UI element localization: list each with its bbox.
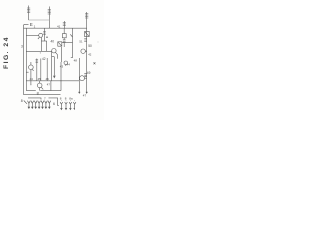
svg-text:8: 8 bbox=[37, 92, 39, 96]
svg-text:3: 3 bbox=[21, 45, 23, 49]
svg-text:51: 51 bbox=[79, 40, 83, 44]
svg-text:1: 1 bbox=[34, 24, 36, 28]
svg-text:48: 48 bbox=[74, 59, 78, 63]
svg-text:44: 44 bbox=[67, 63, 71, 67]
svg-text:40: 40 bbox=[51, 40, 55, 44]
svg-text:8: 8 bbox=[60, 96, 62, 100]
svg-text:6: 6 bbox=[53, 102, 55, 106]
svg-text:7: 7 bbox=[44, 97, 46, 101]
svg-text:46: 46 bbox=[46, 77, 50, 81]
svg-text:44: 44 bbox=[30, 77, 34, 81]
svg-text:50: 50 bbox=[88, 44, 92, 48]
svg-text:42: 42 bbox=[42, 57, 46, 61]
svg-text:E: E bbox=[30, 22, 33, 27]
svg-text:49: 49 bbox=[87, 71, 91, 75]
svg-text:42: 42 bbox=[88, 53, 92, 57]
svg-text:FIG. 24: FIG. 24 bbox=[3, 36, 10, 69]
svg-text:47: 47 bbox=[47, 83, 51, 87]
svg-text:8a: 8a bbox=[69, 96, 73, 100]
svg-text:8: 8 bbox=[21, 99, 23, 103]
svg-text:43: 43 bbox=[60, 65, 64, 69]
svg-text:41: 41 bbox=[57, 25, 61, 29]
svg-text:47: 47 bbox=[83, 93, 87, 97]
svg-text:8: 8 bbox=[65, 96, 67, 100]
svg-text:45: 45 bbox=[38, 77, 42, 81]
